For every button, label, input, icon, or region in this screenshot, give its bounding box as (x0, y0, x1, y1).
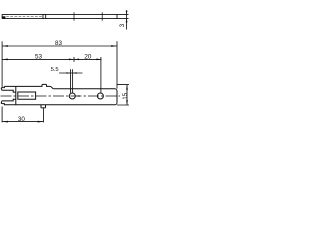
dim row2 line 53 and 20 (2, 58, 101, 60)
hole 2 (97, 93, 103, 99)
arrow 53 and 20 bowtie at hole1 ext (69, 59, 79, 61)
arrow 30 left (2, 121, 8, 123)
arrow 30 right (38, 121, 44, 123)
dim 30 line (2, 121, 43, 123)
side view outline (2, 14, 117, 18)
svg-text:15: 15 (123, 92, 129, 99)
dim 15 line (126, 85, 128, 105)
dim 83 extension line left (1, 41, 3, 87)
plan centerline (1, 95, 121, 97)
svg-text:20: 20 (84, 53, 92, 60)
plan shaft recess rectangle (18, 92, 36, 99)
svg-text:30: 30 (18, 116, 26, 123)
plan head outline (1, 89, 117, 108)
svg-text:53: 53 (35, 53, 43, 60)
dim 83 line (2, 45, 117, 47)
arrow 20 right (96, 59, 101, 61)
plan bit notch top (2, 90, 16, 92)
hole 1 (69, 93, 75, 99)
dim 5.5 line (59, 72, 83, 74)
dim 30 ext lines (2, 107, 43, 123)
dim 5.5 ext verticals down to hole1 (71, 69, 73, 93)
svg-text:5.5: 5.5 (51, 67, 59, 73)
plan bit right edge (15, 86, 17, 104)
dim 15 ext lines (117, 85, 129, 105)
arrow 53 left (2, 59, 8, 61)
arrow 15 top inside (126, 85, 128, 90)
side view left tab block (2, 16, 5, 18)
plan bit notch bottom (2, 99, 16, 101)
side view bump edge lines (43, 14, 46, 19)
arrow at hole1 right tangent on centerline (76, 95, 80, 97)
side view hidden dashed line (6, 16, 43, 18)
arrow 83 left (2, 45, 8, 47)
arrow 15 bottom inside (126, 100, 128, 105)
arrow 83 right (111, 45, 117, 47)
dim 83 extension line right (116, 41, 118, 88)
arrow 5.5 right outside (73, 72, 77, 74)
arrow 5.5 left outside (66, 72, 70, 74)
thickness 3 extension lines (117, 14, 129, 18)
thickness 3 dimension line (126, 10, 128, 29)
svg-text:83: 83 (55, 40, 63, 47)
arrow thickness bottom outside (126, 19, 128, 23)
arrow thickness top outside (126, 11, 128, 15)
dim row2 tick ext at hole1 (73, 57, 75, 62)
side view hole 2 centerline (101, 12, 103, 20)
side view hole 1 centerline (73, 12, 75, 20)
ext line hole2 down to plan (100, 57, 102, 93)
plan outline top: bit + mid + bump + ramp (1, 84, 54, 90)
